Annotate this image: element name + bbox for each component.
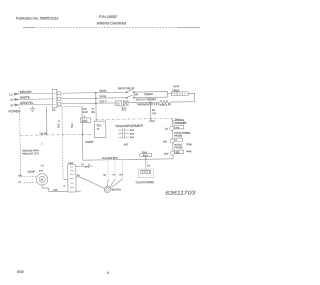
wire heater to thermostat loop: [170, 93, 195, 102]
svg-text:V9 BL: V9 BL: [99, 94, 107, 98]
svg-text:BN: BN: [19, 175, 23, 177]
capacitor strip: [68, 165, 77, 192]
svg-text:100-: 100-: [134, 93, 139, 96]
wire cap diagonal: [80, 177, 104, 189]
fan motor M: [104, 186, 110, 192]
defrost thermostat resistor: [160, 100, 170, 104]
node drop BK/AT1: [150, 102, 152, 118]
wire N: [13, 98, 52, 101]
probe spine: [171, 118, 174, 158]
svg-text:TRIM.: TRIM.: [186, 144, 193, 146]
svg-text:COMP: COMP: [85, 140, 94, 144]
svg-text:4: 4: [107, 271, 109, 275]
dashed bus mid-left: [20, 134, 94, 135]
wire dashed connector drop: [62, 107, 63, 180]
compressor motor: [36, 174, 48, 186]
svg-text:BK: BK: [152, 110, 156, 112]
svg-text:GROUND PATH: GROUND PATH: [22, 149, 39, 152]
svg-text:3H: 3H: [77, 175, 80, 177]
svg-text:BU12: BU12: [143, 155, 149, 157]
probe box 1: [174, 125, 184, 129]
wire connector drop: [45, 106, 47, 134]
ground symbol: [30, 106, 35, 112]
relay box RL1: [94, 121, 106, 138]
wire comp stub VT: [24, 181, 37, 183]
svg-text:V8 BK: V8 BK: [99, 89, 107, 93]
probe box 2: [174, 138, 182, 141]
wire L1: [13, 92, 52, 95]
wire bus row2: [61, 98, 127, 99]
node V7 vertical: [95, 93, 97, 121]
plug terminal L1: [15, 93, 19, 95]
svg-text:N: N: [10, 98, 12, 102]
svg-text:MOTOR: MOTOR: [112, 188, 121, 191]
svg-text:BU1: BU1: [57, 122, 60, 127]
thermistor Dx3: [170, 151, 174, 155]
svg-text:GRN/YEL: GRN/YEL: [20, 101, 34, 105]
lower bus: [83, 159, 173, 160]
wire row1 to heater: [134, 92, 172, 95]
svg-text:CX11: CX11: [149, 121, 155, 123]
dashed center bus: [96, 118, 172, 119]
svg-text:63611703: 63611703: [165, 190, 196, 196]
wire dashed ground drop: [20, 107, 21, 176]
svg-text:BU: BU: [119, 174, 122, 176]
svg-text:PROBE: PROBE: [179, 123, 188, 125]
fan motor drops: [108, 160, 123, 179]
svg-text:V10 V: V10 V: [99, 99, 106, 103]
wire bus row3: [61, 102, 115, 105]
svg-text:RL1: RL1: [97, 123, 102, 127]
svg-text:Dx3: Dx3: [164, 152, 169, 155]
svg-text:S-R: S-R: [39, 169, 43, 172]
svg-text:CMP: CMP: [68, 163, 74, 165]
plug terminal N: [15, 98, 19, 100]
connector C1 pin 2: [57, 97, 61, 100]
svg-text:6/08: 6/08: [17, 270, 24, 274]
wire bus row1: [61, 92, 127, 93]
wire row4 dashed: [58, 105, 81, 107]
svg-text:Dx2: Dx2: [163, 140, 168, 143]
svg-text:POWER: POWER: [9, 109, 22, 113]
svg-text:THERM: THERM: [144, 93, 153, 96]
svg-text:X10: X10: [53, 189, 58, 192]
svg-text:L1: L1: [9, 92, 13, 96]
wire thermostat row: [128, 101, 160, 104]
fan motor leads: [107, 179, 122, 189]
wire comp bottom loop: [42, 185, 68, 192]
svg-text:PRODUCT (ST): PRODUCT (ST): [22, 153, 39, 155]
svg-text:ADC: ADC: [82, 119, 88, 123]
svg-text:XB622: XB622: [172, 89, 180, 92]
wire comp stub M: [21, 175, 37, 177]
plug terminal GND: [15, 104, 19, 106]
svg-text:1/2 BL: 1/2 BL: [39, 131, 48, 135]
fuse box: [123, 101, 128, 105]
wire cap bottom stub: [76, 190, 81, 192]
wire vert to lower bus: [81, 134, 83, 160]
svg-text:#10 CU THERMO: #10 CU THERMO: [136, 98, 156, 101]
svg-text:COMP: COMP: [28, 170, 36, 173]
svg-text:AP1: AP1: [124, 143, 129, 146]
svg-text:ADC2: ADC2: [173, 85, 180, 88]
svg-text:WIRING DIAGRAM: WIRING DIAGRAM: [97, 22, 127, 26]
switch SW2: [127, 95, 133, 98]
svg-text:WHT: WHT: [83, 111, 89, 114]
connector C1 body: [52, 89, 57, 108]
probe box 0: [174, 120, 184, 123]
svg-text:TOUCH PANEL: TOUCH PANEL: [135, 180, 154, 184]
thermistor Dx1: [170, 126, 174, 130]
svg-text:BL2: BL2: [71, 123, 74, 128]
wire row2 to heater: [134, 94, 168, 98]
svg-text:THERMOSTAT 9 FT: THERMOSTAT 9 FT: [136, 103, 159, 106]
EV4 box: [140, 154, 152, 157]
svg-text:Publication No. 5995519119: Publication No. 5995519119: [16, 16, 58, 20]
wire cap right 1: [76, 165, 93, 167]
svg-text:PROBE: PROBE: [175, 147, 184, 149]
svg-text:FVH-I2652F: FVH-I2652F: [99, 15, 117, 19]
switch SW1: [127, 89, 133, 92]
wire cap left stub: [64, 179, 68, 181]
connector C1 pin 3: [57, 103, 61, 106]
svg-text:C: C: [63, 185, 65, 188]
svg-text:TRANSFORMER: TRANSFORMER: [115, 124, 144, 128]
thermistor Dx2: [170, 139, 174, 143]
svg-text:WHITE: WHITE: [20, 95, 30, 99]
svg-text:BK: BK: [92, 111, 96, 114]
defrost heater box: [172, 92, 189, 96]
svg-text:T1B.: T1B.: [186, 133, 191, 135]
wire V10 vertical: [81, 106, 83, 135]
wire EV4 to touch panel: [145, 157, 147, 170]
svg-text:WHT 4 FT: WHT 4 FT: [159, 104, 171, 107]
header dashed rule: [23, 27, 34, 29]
svg-text:BROWN: BROWN: [20, 90, 32, 94]
svg-text:ROOM: ROOM: [174, 144, 181, 146]
svg-text:C1: C1: [52, 108, 56, 112]
ADC label box: [81, 118, 91, 123]
svg-text:SW #1 DEL #1: SW #1 DEL #1: [118, 87, 135, 90]
touch panel connector: [139, 169, 154, 178]
probe box 3: [175, 150, 184, 154]
svg-text:PROBE: PROBE: [174, 135, 183, 137]
wire GND green: [13, 103, 52, 106]
wire cap right 2: [76, 176, 80, 178]
transformer T1: [118, 128, 129, 132]
connector C1 pin 1: [57, 92, 61, 95]
svg-text:EV4: EV4: [142, 151, 147, 154]
svg-text:MAN.: MAN.: [186, 150, 192, 153]
component C2 box: [115, 101, 121, 106]
svg-text:BU1 BU3 BU5: BU1 BU3 BU5: [102, 157, 118, 160]
